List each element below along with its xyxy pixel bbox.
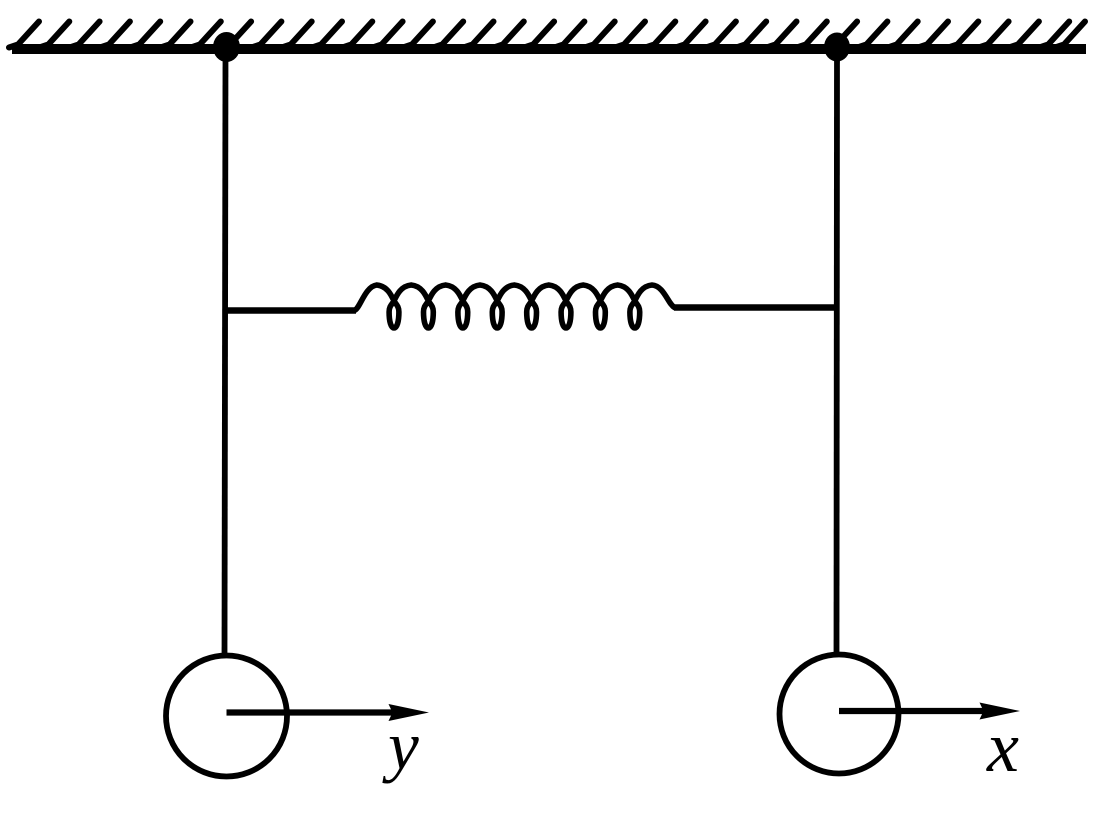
rod right (pendulum x) <box>834 54 840 653</box>
ceiling <box>12 44 1086 54</box>
arrow y (displacement of left mass) <box>227 704 430 721</box>
pivot dot right <box>824 33 850 62</box>
svg-text:x: x <box>986 707 1019 787</box>
svg-text:y: y <box>382 708 419 784</box>
arrow x (displacement of right mass) <box>839 703 1020 720</box>
label y <box>382 708 419 784</box>
pivot dot left <box>213 32 240 62</box>
mass bob left (y) <box>166 656 287 777</box>
spring left lead wire <box>223 307 356 314</box>
rod left (pendulum y) <box>225 54 226 655</box>
spring coil <box>354 285 675 328</box>
spring right lead wire <box>674 304 839 311</box>
mass bob right (x) <box>780 655 899 774</box>
ceiling hatching <box>9 22 1085 48</box>
label x <box>986 707 1019 787</box>
